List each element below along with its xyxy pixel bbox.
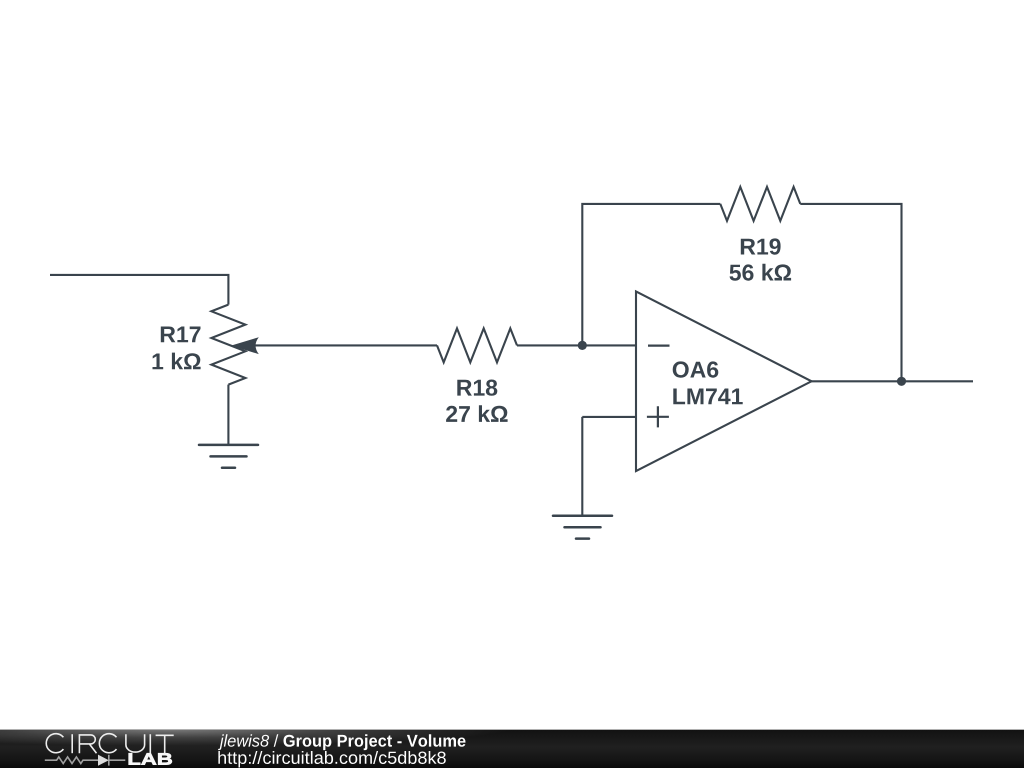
footer title line jlewis8 / Group Project - Volume [218,734,465,750]
value label 1 kOhm [153,353,201,370]
logo resistor-diode symbol [45,755,126,766]
label R17 [161,327,201,343]
resistor R18 body [437,328,517,362]
resistor R19 body [720,187,800,221]
wire feedback right vertical [800,204,901,381]
value label 27 kOhm [446,405,508,422]
logo CIRCUIT wordmark [46,734,173,754]
op-amp U1 triangle [636,292,812,472]
wire input top-left [50,275,228,305]
wire output [812,380,974,382]
wire R17 bottom to ground [227,385,229,444]
logo LAB text [129,753,172,764]
wire R18 to op-amp inverting input [517,344,636,346]
node junction dot at output [897,377,906,386]
wire wiper to R18 [249,344,437,346]
label R18 [457,380,497,396]
op-amp minus pin symbol [648,345,670,347]
ground under non-inverting input [553,516,612,539]
node junction dot at inverting input [578,341,587,350]
op-amp plus pin symbol [647,406,669,427]
wire feedback left vertical [582,204,720,346]
footer url line (circuitlab address) [218,751,445,768]
logo diode triangle [98,755,109,766]
wire non-inverting to ground [581,417,583,515]
value label LM741 [673,389,742,405]
potentiometer R17 wiper arrow [231,337,259,354]
label OA6 [673,361,719,377]
ground under R17 [199,445,258,468]
value label 56 kOhm [730,264,792,281]
potentiometer R17 body [211,305,245,385]
label R19 [741,238,781,254]
wire op-amp non-inverting input [582,416,636,418]
